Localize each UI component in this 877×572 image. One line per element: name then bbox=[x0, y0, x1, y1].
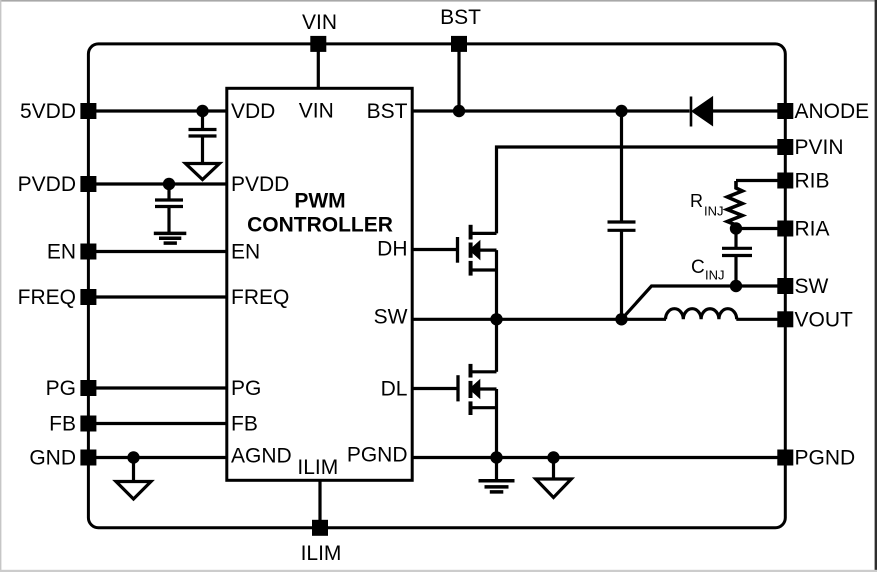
transistor Q2 body connection bbox=[477, 387, 497, 390]
svg-text:VDD: VDD bbox=[231, 100, 275, 123]
svg-text:FB: FB bbox=[231, 413, 258, 436]
svg-text:SW: SW bbox=[374, 306, 408, 329]
node dot PGND arrow junction bbox=[547, 451, 559, 463]
diode D1 body bbox=[694, 99, 712, 124]
node dot C_INJ SW junction bbox=[730, 280, 742, 292]
svg-text:RIB: RIB bbox=[795, 170, 830, 193]
transistor Q1 body arrow bbox=[471, 243, 478, 256]
node dot PVDD cap junction bbox=[163, 178, 175, 190]
ground arrow at C1 bbox=[186, 164, 220, 180]
svg-text:PG: PG bbox=[46, 377, 76, 400]
transistor Q2 source connection bbox=[471, 406, 497, 409]
transistor Q2 channel segments bbox=[469, 364, 473, 415]
svg-text:INJ: INJ bbox=[704, 204, 724, 219]
svg-text:FREQ: FREQ bbox=[231, 286, 289, 309]
svg-text:VIN: VIN bbox=[299, 100, 334, 123]
svg-text:DH: DH bbox=[377, 238, 407, 261]
svg-text:C: C bbox=[691, 257, 705, 278]
transistor Q1 source connection bbox=[471, 268, 497, 271]
value label R_INJ bbox=[690, 191, 724, 219]
pad VIN bbox=[310, 36, 326, 52]
pad FB bbox=[80, 416, 96, 432]
svg-text:ILIM: ILIM bbox=[297, 456, 338, 479]
transistor Q2 source vertical bbox=[495, 389, 498, 458]
transistor Q2 drain connection bbox=[471, 370, 497, 373]
inductor L1 bbox=[666, 309, 737, 320]
svg-text:PWM: PWM bbox=[294, 190, 345, 213]
wire GND to AGND pin bbox=[88, 456, 227, 459]
wire PG to PG pin bbox=[88, 386, 227, 389]
svg-text:PVDD: PVDD bbox=[231, 173, 289, 196]
capacitor C_INJ bbox=[722, 229, 752, 287]
wire RIA pad to node bbox=[736, 227, 785, 230]
node dot GND junction bbox=[127, 451, 139, 463]
ground arrow at GND bbox=[116, 458, 151, 500]
wire BST net from box to diode cathode bbox=[412, 109, 690, 112]
pad ANODE bbox=[777, 103, 793, 119]
svg-text:FB: FB bbox=[49, 413, 76, 436]
pad 5VDD bbox=[80, 103, 96, 119]
outer schematic border rounded rect bbox=[88, 44, 785, 528]
frame right bbox=[875, 0, 877, 572]
capacitor C1 VDD decoupling bbox=[189, 111, 217, 164]
svg-text:CONTROLLER: CONTROLLER bbox=[247, 214, 393, 237]
transistor Q1 high-side MOSFET gate bar bbox=[456, 237, 459, 263]
svg-text:ILIM: ILIM bbox=[301, 542, 342, 565]
wire inductor to VOUT pad bbox=[736, 318, 785, 321]
node dot Q2 source PGND junction bbox=[490, 451, 502, 463]
pad EN bbox=[80, 244, 96, 260]
node dot C3 top junction bbox=[615, 105, 627, 117]
svg-text:GND: GND bbox=[29, 447, 76, 470]
capacitor C3 BST to SW bbox=[608, 111, 636, 319]
pad RIA bbox=[777, 221, 793, 237]
node dot RIA junction bbox=[730, 222, 742, 234]
wire BST pad down to BST net bbox=[457, 44, 460, 111]
svg-text:DL: DL bbox=[381, 377, 408, 400]
wire PGND net bbox=[412, 456, 785, 459]
wire 5VDD to VDD pin bbox=[88, 109, 227, 112]
svg-text:SW: SW bbox=[795, 275, 829, 298]
ground arrow at PGND bbox=[536, 458, 572, 498]
wire FREQ to FREQ pin bbox=[88, 295, 227, 298]
svg-text:FREQ: FREQ bbox=[18, 286, 76, 309]
svg-text:VOUT: VOUT bbox=[795, 309, 854, 332]
pad ILIM bbox=[312, 520, 328, 536]
frame left bbox=[0, 0, 1, 572]
svg-text:VIN: VIN bbox=[302, 11, 337, 34]
svg-text:EN: EN bbox=[47, 241, 76, 264]
pad VOUT bbox=[777, 311, 793, 327]
svg-text:PVDD: PVDD bbox=[18, 173, 76, 196]
wire FB to FB pin bbox=[88, 422, 227, 425]
frame top bbox=[0, 0, 877, 2]
pad RIB bbox=[777, 173, 793, 189]
svg-text:RIA: RIA bbox=[795, 218, 830, 241]
svg-text:INJ: INJ bbox=[705, 267, 725, 282]
svg-text:R: R bbox=[690, 191, 703, 211]
transistor Q2 body arrow bbox=[471, 382, 478, 395]
svg-text:5VDD: 5VDD bbox=[20, 100, 76, 123]
resistor R_INJ bbox=[727, 181, 742, 228]
svg-text:PVIN: PVIN bbox=[795, 136, 844, 159]
wire SW net from box to inductor bbox=[412, 318, 666, 321]
transistor Q1 channel segments bbox=[469, 225, 473, 276]
transistor Q2 low-side MOSFET drain vertical bbox=[495, 319, 498, 372]
earth ground at C2 bbox=[154, 233, 187, 243]
capacitor C2 PVDD decoupling bbox=[155, 184, 183, 233]
wire DH gate bbox=[412, 248, 456, 251]
pad BST bbox=[451, 36, 467, 52]
pad PG bbox=[80, 380, 96, 396]
svg-text:BST: BST bbox=[367, 100, 408, 123]
pad PVDD bbox=[80, 176, 96, 192]
transistor Q2 gate bar bbox=[456, 375, 459, 401]
node dot Q1 source SW junction bbox=[490, 313, 502, 325]
pad FREQ bbox=[80, 289, 96, 305]
svg-text:ANODE: ANODE bbox=[795, 100, 870, 123]
wire VIN pad to box top bbox=[317, 44, 320, 88]
svg-text:PGND: PGND bbox=[795, 447, 856, 470]
transistor Q1 body connection bbox=[477, 249, 497, 252]
pad SW bbox=[777, 278, 793, 294]
svg-text:AGND: AGND bbox=[231, 445, 292, 468]
wire PVIN pad to Q1 drain bbox=[497, 147, 786, 233]
value label C_INJ bbox=[691, 257, 725, 282]
wire EN to EN pin bbox=[88, 250, 227, 253]
wire DL gate bbox=[412, 387, 457, 390]
op-amp U1 PWM controller box bbox=[227, 88, 412, 480]
wire diode anode to ANODE pad bbox=[712, 109, 786, 112]
node dot VDD cap junction bbox=[196, 105, 208, 117]
transistor Q1 source vertical bbox=[495, 250, 498, 319]
wire SW pad to SW node diagonal bbox=[622, 286, 786, 319]
wire RIB pad to resistor R_INJ top bbox=[736, 179, 785, 182]
wire ILIM pin to ILIM pad bbox=[318, 480, 321, 528]
pad GND bbox=[80, 450, 96, 466]
transistor Q1 drain connection bbox=[471, 232, 497, 235]
svg-text:BST: BST bbox=[440, 6, 481, 29]
wire PVDD to PVDD pin bbox=[88, 182, 227, 185]
svg-text:PGND: PGND bbox=[347, 444, 408, 467]
frame bottom bbox=[0, 570, 877, 572]
node dot BST junction bbox=[453, 105, 465, 117]
node dot SW-C3 junction bbox=[615, 313, 627, 325]
earth ground at Q2 source bbox=[479, 458, 515, 492]
pad PGND bbox=[777, 450, 793, 466]
svg-text:EN: EN bbox=[231, 241, 260, 264]
svg-text:PG: PG bbox=[231, 377, 261, 400]
pad PVIN bbox=[777, 139, 793, 155]
diode D1 cathode bar bbox=[690, 97, 693, 127]
